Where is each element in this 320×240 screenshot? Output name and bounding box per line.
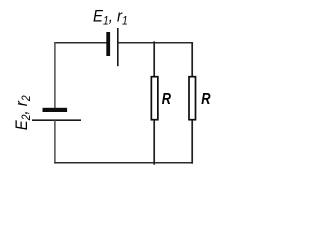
svg-text:E2, r2: E2, r2 [13,95,33,130]
battery E2 negative plate (short thick bar) [43,108,68,112]
wire: left upper segment (node A down to E2 plate) [54,42,56,108]
wire: top-left segment (node A to E1 negative plate) [54,42,106,44]
wire: middle branch lower (resistor R left down to junction on bottom wire) [153,120,155,165]
wire: right lower segment (resistor R right down to node C) [191,120,193,164]
resistor R (left branch) [151,77,158,120]
svg-text:E1, r1: E1, r1 [93,8,128,28]
wire: bottom segment (node D to node C) [54,162,193,164]
label E1, r1 [93,8,128,28]
label R (left branch) [162,91,172,109]
wire: left lower segment (E2 plate down to node D) [54,120,56,163]
resistor R (right branch) [189,77,196,120]
wire: middle branch upper (junction on top wire down to resistor R left) [153,41,155,77]
svg-text:R: R [201,91,211,109]
battery E1 positive plate (long thin bar) [117,28,119,66]
svg-text:R: R [162,91,172,109]
label E2, r2 (rotated) [13,95,33,130]
wire: top-right segment (E1 positive plate to node B) [118,42,193,44]
battery E2 positive plate (long thin bar) [32,119,81,121]
label R (right branch) [201,91,211,109]
battery E1 negative plate (short thick bar) [106,32,110,56]
wire: right upper segment (node B down to resistor R right) [191,42,193,77]
